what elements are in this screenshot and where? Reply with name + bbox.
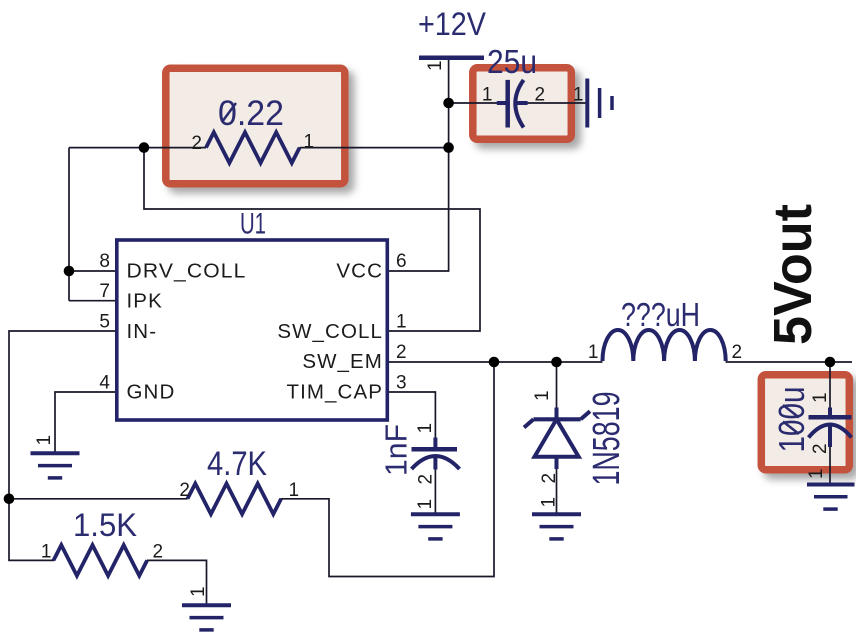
svg-text:8: 8 [99,251,110,272]
svg-text:1: 1 [188,586,209,597]
svg-text:???uH: ???uH [621,296,700,333]
svg-text:7: 7 [99,281,110,302]
svg-text:1: 1 [573,85,584,106]
svg-text:2: 2 [810,443,831,454]
svg-text:4.7K: 4.7K [207,445,267,483]
svg-text:2: 2 [539,473,560,484]
svg-text:100u: 100u [771,387,812,453]
svg-text:5Vout: 5Vout [763,204,823,345]
svg-text:6: 6 [396,251,407,272]
svg-text:SW_EM: SW_EM [302,350,383,373]
svg-text:1: 1 [806,468,827,479]
svg-text:SW_COLL: SW_COLL [277,320,383,343]
svg-text:2: 2 [732,342,743,363]
svg-text:3: 3 [396,373,407,394]
svg-text:1: 1 [588,342,599,363]
svg-text:2: 2 [396,342,407,363]
svg-text:1: 1 [304,132,315,153]
svg-text:1: 1 [415,499,436,510]
svg-text:VCC: VCC [336,259,383,282]
svg-text:1: 1 [425,60,446,71]
svg-text:2: 2 [416,474,437,485]
svg-text:1nF: 1nF [379,424,414,476]
svg-text:+12V: +12V [418,6,487,42]
svg-text:5: 5 [99,312,110,333]
svg-text:1: 1 [41,542,52,563]
svg-text:1: 1 [532,390,553,401]
svg-text:1: 1 [810,392,831,403]
svg-text:2: 2 [153,542,164,563]
svg-text:2: 2 [535,85,546,106]
svg-text:1: 1 [289,480,300,501]
svg-text:1: 1 [396,312,407,333]
svg-text:1.5K: 1.5K [73,507,137,543]
svg-text:U1: U1 [240,208,266,241]
svg-text:DRV_COLL: DRV_COLL [127,259,247,282]
svg-text:25u: 25u [487,43,537,80]
svg-text:GND: GND [127,381,176,404]
svg-text:IPK: IPK [127,290,163,313]
svg-text:1: 1 [415,423,436,434]
svg-text:1: 1 [482,85,493,106]
svg-text:2: 2 [179,480,190,501]
svg-text:4: 4 [99,373,110,394]
svg-text:2: 2 [191,133,202,154]
svg-text:TIM_CAP: TIM_CAP [286,381,383,404]
svg-text:1N5819: 1N5819 [586,392,628,486]
svg-text:1: 1 [539,497,560,508]
svg-text:IN-: IN- [127,320,158,343]
svg-text:1: 1 [34,435,55,446]
